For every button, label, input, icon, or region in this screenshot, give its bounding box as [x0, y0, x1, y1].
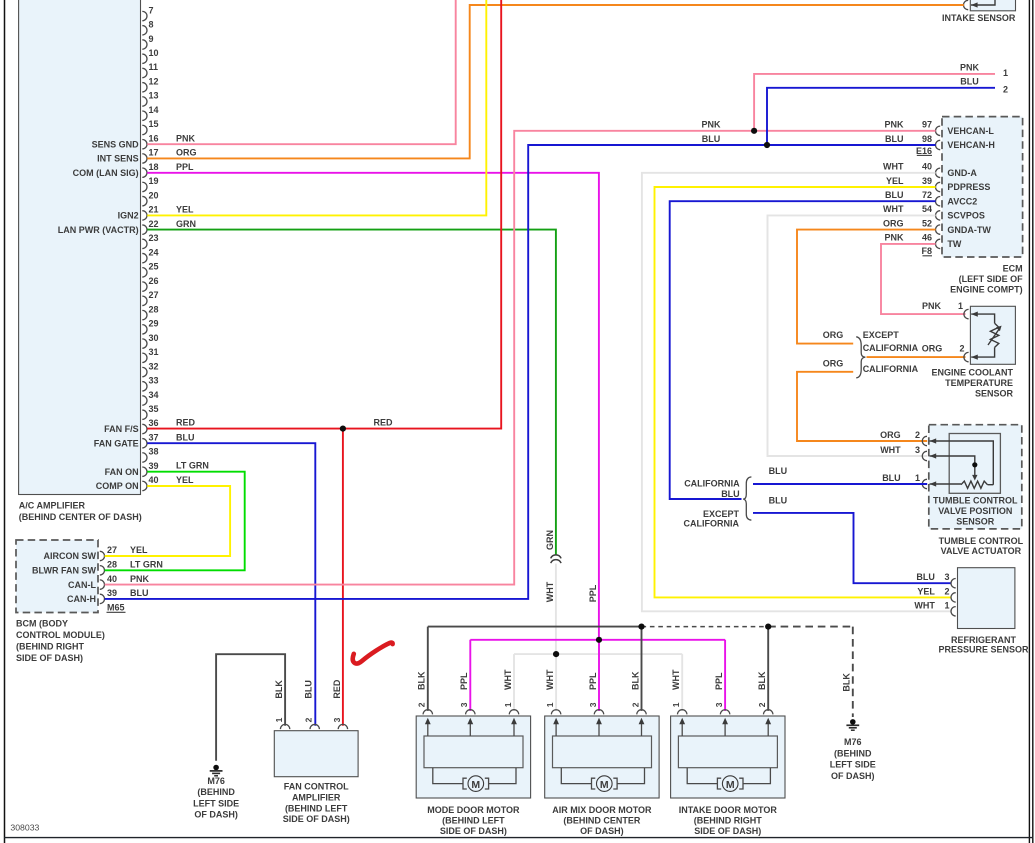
- svg-text:15: 15: [149, 119, 159, 129]
- svg-text:PNK: PNK: [701, 120, 721, 130]
- svg-text:39: 39: [149, 461, 159, 471]
- svg-text:SCVPOS: SCVPOS: [947, 211, 985, 221]
- svg-text:(LEFT SIDE OF: (LEFT SIDE OF: [959, 274, 1024, 284]
- svg-text:27: 27: [107, 545, 117, 555]
- refrigerant pressure sensor: [951, 568, 1015, 629]
- tumble sensor pin labels: [880, 430, 920, 483]
- fan control amplifier caption: [283, 782, 350, 824]
- svg-text:ORG: ORG: [922, 344, 943, 354]
- svg-text:WHT: WHT: [671, 669, 681, 690]
- svg-text:BLU: BLU: [916, 572, 935, 582]
- svg-text:3: 3: [588, 702, 598, 707]
- svg-text:VEHCAN-H: VEHCAN-H: [947, 140, 995, 150]
- svg-text:31: 31: [149, 347, 159, 357]
- fan control amplifier: [274, 724, 358, 776]
- svg-text:BLU: BLU: [885, 134, 904, 144]
- svg-text:PNK: PNK: [884, 233, 904, 243]
- svg-text:COMP ON: COMP ON: [96, 481, 139, 491]
- wire BLK bus mode/airmix/intake door motors: [428, 627, 853, 717]
- svg-text:10: 10: [149, 48, 159, 58]
- svg-text:CONTROL MODULE): CONTROL MODULE): [16, 630, 105, 640]
- svg-text:22: 22: [149, 219, 159, 229]
- ground M76 left: [210, 765, 223, 776]
- svg-text:40: 40: [107, 574, 117, 584]
- wire RED drop to fan control amplifier pin 3: [340, 426, 346, 726]
- svg-text:PPL: PPL: [459, 672, 469, 690]
- svg-text:BLU: BLU: [721, 489, 740, 499]
- A/C amplifier pin labels: [58, 139, 139, 491]
- svg-text:(BEHIND RIGHT: (BEHIND RIGHT: [16, 642, 84, 652]
- svg-text:39: 39: [922, 176, 932, 186]
- svg-text:PPL: PPL: [588, 584, 598, 602]
- svg-text:CAN-L: CAN-L: [68, 580, 96, 590]
- svg-text:SENSOR: SENSOR: [975, 388, 1014, 398]
- svg-text:SIDE OF DASH): SIDE OF DASH): [283, 814, 350, 824]
- svg-text:FAN ON: FAN ON: [105, 467, 139, 477]
- svg-text:9: 9: [149, 34, 154, 44]
- ECM caption: [950, 264, 1023, 295]
- svg-text:WHT: WHT: [883, 204, 904, 214]
- engine coolant temperature sensor (thermistor): [964, 306, 1016, 364]
- wire LT GRN pin39 FAN ON to BCM BLWR FAN SW: [105, 461, 245, 571]
- svg-text:YEL: YEL: [917, 586, 935, 596]
- svg-text:TUMBLE CONTROL: TUMBLE CONTROL: [939, 536, 1024, 546]
- svg-text:PNK: PNK: [130, 574, 150, 584]
- svg-text:E16: E16: [916, 146, 932, 156]
- svg-text:YEL: YEL: [176, 205, 194, 215]
- svg-text:BLK: BLK: [842, 673, 852, 692]
- svg-text:(BEHIND RIGHT: (BEHIND RIGHT: [694, 816, 762, 826]
- wire PPL mode door motor pin 3: [459, 640, 470, 711]
- svg-text:SENS GND: SENS GND: [92, 139, 140, 149]
- svg-text:36: 36: [149, 418, 159, 428]
- wire WHT ECM GND-A to refrigerant pressure sensor pin 1: [642, 173, 951, 612]
- wire BLU ECM AVCC2 to california brace: [670, 201, 936, 499]
- svg-text:RED: RED: [332, 679, 342, 699]
- svg-text:(BEHIND: (BEHIND: [834, 748, 872, 758]
- svg-text:1: 1: [915, 473, 920, 483]
- svg-text:CALIFORNIA: CALIFORNIA: [684, 478, 740, 488]
- svg-text:AIR MIX DOOR MOTOR: AIR MIX DOOR MOTOR: [552, 805, 652, 815]
- ground M76 left caption: [193, 776, 239, 820]
- svg-text:VALVE POSITION: VALVE POSITION: [938, 506, 1012, 516]
- svg-text:1: 1: [503, 702, 513, 707]
- svg-text:2: 2: [1003, 84, 1008, 94]
- svg-text:35: 35: [149, 404, 159, 414]
- wire PPL air mix door motor pin 3: [588, 640, 599, 711]
- svg-text:21: 21: [149, 205, 159, 215]
- connector BCM: [16, 540, 98, 613]
- svg-text:TEMPERATURE: TEMPERATURE: [945, 378, 1013, 388]
- svg-text:WHT: WHT: [545, 581, 555, 602]
- svg-text:SENSOR: SENSOR: [956, 517, 995, 527]
- svg-text:PNK: PNK: [176, 133, 196, 143]
- svg-text:2: 2: [944, 586, 949, 596]
- wire YEL pin21 IGN2 to top: [147, 0, 486, 215]
- wire WHT air mix door motor pin 1: [545, 654, 556, 711]
- svg-text:52: 52: [922, 218, 932, 228]
- connector id E16: [916, 146, 932, 156]
- svg-text:3: 3: [915, 445, 920, 455]
- wire BLU branch to connector pin 2: [764, 77, 1008, 148]
- svg-text:M76: M76: [844, 737, 862, 747]
- wire BLU except california to refrigerant pressure sensor pin 3: [753, 496, 951, 584]
- svg-text:M: M: [726, 779, 735, 791]
- svg-text:INT SENS: INT SENS: [97, 154, 139, 164]
- svg-text:FAN GATE: FAN GATE: [94, 438, 139, 448]
- svg-text:7: 7: [149, 5, 154, 15]
- svg-text:30: 30: [149, 333, 159, 343]
- red checkmark annotation: [353, 643, 393, 664]
- svg-text:CAN-H: CAN-H: [67, 594, 96, 604]
- svg-text:1: 1: [671, 702, 681, 707]
- svg-text:PPL: PPL: [176, 162, 194, 172]
- wire ORG to engine coolant temperature sensor pin 2: [867, 344, 966, 358]
- brace ORG california options: [856, 330, 918, 378]
- svg-text:WHT: WHT: [880, 445, 901, 455]
- svg-text:(BEHIND LEFT: (BEHIND LEFT: [442, 816, 505, 826]
- svg-text:GND-A: GND-A: [947, 168, 977, 178]
- svg-text:BLWR FAN SW: BLWR FAN SW: [32, 566, 96, 576]
- svg-text:LT GRN: LT GRN: [130, 560, 163, 570]
- wire ORG ECM GNDA-TW except california branch: [797, 230, 936, 344]
- svg-text:1: 1: [545, 702, 555, 707]
- svg-text:RED: RED: [176, 418, 196, 428]
- svg-text:97: 97: [922, 120, 932, 130]
- diagram number 308033: [10, 823, 39, 833]
- svg-text:CALIFORNIA: CALIFORNIA: [684, 519, 740, 529]
- svg-text:2: 2: [959, 344, 964, 354]
- svg-text:VALVE ACTUATOR: VALVE ACTUATOR: [941, 546, 1022, 556]
- wire ORG california branch to tumble sensor pin 2: [797, 359, 927, 441]
- svg-text:LAN PWR (VACTR): LAN PWR (VACTR): [58, 225, 139, 235]
- junction dots door motor buses: [553, 624, 771, 658]
- mode door motor caption: [427, 805, 520, 836]
- svg-text:ORG: ORG: [883, 218, 904, 228]
- svg-text:AIRCON SW: AIRCON SW: [44, 551, 97, 561]
- tumble control valve position sensor (potentiometer): [922, 425, 1022, 529]
- svg-text:2: 2: [417, 702, 427, 707]
- svg-text:BLU: BLU: [885, 190, 904, 200]
- air mix door motor caption: [552, 805, 652, 836]
- svg-text:COM (LAN SIG): COM (LAN SIG): [73, 168, 139, 178]
- svg-text:40: 40: [149, 475, 159, 485]
- svg-text:BLK: BLK: [757, 671, 767, 690]
- svg-text:F8: F8: [921, 246, 932, 256]
- svg-text:24: 24: [149, 247, 159, 257]
- svg-text:BLK: BLK: [417, 671, 427, 690]
- svg-text:3: 3: [459, 702, 469, 707]
- connector id M65: [107, 603, 126, 613]
- wire BLK fan control amplifier pin 1 to ground M76: [216, 654, 285, 761]
- svg-text:GRN: GRN: [545, 530, 555, 550]
- svg-text:BLK: BLK: [274, 680, 284, 699]
- svg-text:2: 2: [757, 702, 767, 707]
- svg-text:PPL: PPL: [714, 672, 724, 690]
- svg-text:PNK: PNK: [922, 301, 942, 311]
- wire PNK ECM TW to engine coolant temperature sensor pin 1: [881, 244, 966, 314]
- svg-text:EXCEPT: EXCEPT: [863, 330, 900, 340]
- svg-text:VEHCAN-L: VEHCAN-L: [947, 126, 994, 136]
- svg-text:BLK: BLK: [630, 671, 640, 690]
- svg-text:YEL: YEL: [130, 545, 148, 555]
- svg-text:RED: RED: [374, 418, 394, 428]
- svg-text:(BEHIND CENTER OF DASH): (BEHIND CENTER OF DASH): [19, 512, 142, 522]
- svg-text:ORG: ORG: [823, 359, 844, 369]
- svg-text:OF DASH): OF DASH): [194, 810, 238, 820]
- svg-text:ORG: ORG: [176, 148, 197, 158]
- tumble position sensor caption: [933, 496, 1018, 527]
- svg-text:28: 28: [107, 560, 117, 570]
- svg-text:32: 32: [149, 361, 159, 371]
- wire WHT ECM SCVPOS to tumble control valve position sensor pin 3: [768, 215, 936, 456]
- svg-text:FAN F/S: FAN F/S: [104, 424, 139, 434]
- svg-text:PNK: PNK: [884, 120, 904, 130]
- svg-text:29: 29: [149, 319, 159, 329]
- intake door motor: [671, 710, 785, 798]
- svg-text:40: 40: [922, 162, 932, 172]
- wire WHT splice to white bus: [555, 564, 557, 655]
- svg-text:19: 19: [149, 176, 159, 186]
- svg-text:54: 54: [922, 204, 932, 214]
- wire PPL pin18 COM(LAN SIG) to PPL bus: [147, 162, 599, 640]
- svg-text:BLU: BLU: [882, 473, 901, 483]
- A/C amplifier caption: [19, 501, 142, 522]
- wire PNK pin16 SENS GND to top: [147, 0, 456, 144]
- svg-text:ORG: ORG: [880, 430, 901, 440]
- svg-text:3: 3: [332, 717, 342, 722]
- wire PNK BCM CAN-L to ECM VEHCAN-L: [105, 120, 936, 585]
- svg-text:WHT: WHT: [503, 669, 513, 690]
- svg-text:13: 13: [149, 91, 159, 101]
- wire YEL pin40 COMP ON to BCM AIRCON SW: [105, 475, 231, 556]
- svg-text:WHT: WHT: [883, 162, 904, 172]
- svg-text:11: 11: [149, 62, 159, 72]
- svg-text:FAN CONTROL: FAN CONTROL: [284, 782, 349, 792]
- svg-text:PPL: PPL: [588, 672, 598, 690]
- mode door motor: [416, 710, 530, 798]
- svg-text:1: 1: [1003, 68, 1008, 78]
- intake sensor: [963, 0, 1015, 11]
- svg-text:BLU: BLU: [769, 466, 788, 476]
- fan control amplifier pin labels: [274, 679, 342, 722]
- svg-text:ENGINE COOLANT: ENGINE COOLANT: [931, 367, 1013, 377]
- wire BLU pin37 FAN GATE to fan control amplifier pin 2: [147, 432, 315, 725]
- svg-text:28: 28: [149, 304, 159, 314]
- brace BLU california options: [684, 477, 752, 529]
- svg-text:AVCC2: AVCC2: [947, 196, 977, 206]
- wire PPL bus door motors: [470, 639, 725, 641]
- svg-text:M: M: [471, 779, 480, 791]
- svg-text:WHT: WHT: [914, 601, 935, 611]
- wire WHT mode door motor pin 1: [503, 654, 514, 711]
- svg-text:M: M: [600, 779, 609, 791]
- wire YEL ECM PDPRESS to refrigerant pressure sensor pin 2: [655, 187, 952, 597]
- svg-text:3: 3: [944, 572, 949, 582]
- svg-text:PDPRESS: PDPRESS: [947, 182, 990, 192]
- svg-text:TW: TW: [947, 239, 961, 249]
- connector ECM: [942, 117, 1023, 257]
- label PPL riser: [588, 584, 598, 602]
- svg-text:WHT: WHT: [545, 669, 555, 690]
- svg-text:ORG: ORG: [823, 330, 844, 340]
- svg-text:23: 23: [149, 233, 159, 243]
- svg-text:SIDE OF DASH): SIDE OF DASH): [16, 653, 83, 663]
- engine coolant temperature sensor caption: [931, 367, 1013, 398]
- wire GRN pin22 LAN PWR to splice: [147, 219, 556, 555]
- svg-text:BLU: BLU: [960, 77, 979, 87]
- svg-text:2: 2: [915, 430, 920, 440]
- svg-text:A/C AMPLIFIER: A/C AMPLIFIER: [19, 501, 86, 511]
- svg-text:37: 37: [149, 432, 159, 442]
- svg-text:CALIFORNIA: CALIFORNIA: [863, 343, 919, 353]
- svg-text:25: 25: [149, 262, 159, 272]
- svg-text:26: 26: [149, 276, 159, 286]
- ground M76 right caption: [830, 737, 876, 781]
- svg-text:GNDA-TW: GNDA-TW: [947, 225, 991, 235]
- svg-text:ECM: ECM: [1003, 264, 1023, 274]
- wire BLU california to tumble sensor pin 1: [753, 466, 927, 484]
- splice GRN to WHT colour change: [545, 530, 561, 602]
- svg-text:SIDE OF DASH): SIDE OF DASH): [694, 826, 761, 836]
- svg-text:20: 20: [149, 190, 159, 200]
- svg-text:YEL: YEL: [176, 475, 194, 485]
- refrigerant pressure sensor pin labels: [914, 572, 949, 610]
- svg-text:3: 3: [714, 702, 724, 707]
- svg-text:2: 2: [630, 702, 640, 707]
- svg-text:(BEHIND LEFT: (BEHIND LEFT: [285, 803, 348, 813]
- ECM pins: [883, 120, 995, 250]
- svg-text:BCM (BODY: BCM (BODY: [16, 619, 68, 629]
- label BLK ground drop M76 right: [842, 673, 852, 692]
- connector A/C amplifier: [19, 0, 141, 495]
- svg-text:72: 72: [922, 190, 932, 200]
- wire BLK mode door motor pin 2: [417, 627, 428, 711]
- svg-text:27: 27: [149, 290, 159, 300]
- svg-text:LT GRN: LT GRN: [176, 461, 209, 471]
- svg-text:12: 12: [149, 76, 159, 86]
- svg-text:(BEHIND CENTER: (BEHIND CENTER: [563, 816, 641, 826]
- intake door motor caption: [679, 805, 778, 836]
- air mix door motor: [545, 710, 659, 798]
- wire BLU BCM CAN-H to ECM VEHCAN-H: [105, 134, 936, 599]
- A/C amplifier pins 7-40: [142, 5, 158, 490]
- svg-text:AMPLIFIER: AMPLIFIER: [292, 793, 341, 803]
- svg-text:38: 38: [149, 447, 159, 457]
- svg-text:2: 2: [304, 717, 314, 722]
- wire PNK branch to connector pin 1: [751, 63, 1008, 134]
- svg-text:SIDE OF DASH): SIDE OF DASH): [440, 826, 507, 836]
- svg-text:OF DASH): OF DASH): [831, 771, 875, 781]
- svg-text:16: 16: [149, 133, 159, 143]
- svg-text:M76: M76: [207, 776, 225, 786]
- tumble control valve actuator caption: [939, 536, 1024, 556]
- svg-text:1: 1: [274, 717, 284, 722]
- svg-text:MODE DOOR MOTOR: MODE DOOR MOTOR: [427, 805, 520, 815]
- svg-text:LEFT SIDE: LEFT SIDE: [830, 760, 876, 770]
- intake sensor caption: [942, 13, 1016, 23]
- svg-text:34: 34: [149, 390, 159, 400]
- svg-text:BLU: BLU: [176, 432, 195, 442]
- svg-text:PRESSURE SENSOR: PRESSURE SENSOR: [938, 645, 1029, 655]
- svg-text:YEL: YEL: [886, 176, 904, 186]
- svg-text:GRN: GRN: [176, 219, 196, 229]
- svg-text:ENGINE COMPT): ENGINE COMPT): [950, 285, 1023, 295]
- wire WHT intake door motor pin 1: [671, 654, 682, 711]
- svg-text:98: 98: [922, 134, 932, 144]
- svg-text:308033: 308033: [10, 823, 39, 833]
- svg-text:8: 8: [149, 20, 154, 30]
- svg-text:17: 17: [149, 148, 159, 158]
- svg-text:BLU: BLU: [304, 680, 314, 699]
- svg-text:BLU: BLU: [130, 588, 149, 598]
- BCM pins: [32, 545, 163, 604]
- wire ORG pin17 INT SENS to intake sensor: [147, 5, 964, 158]
- svg-text:PNK: PNK: [960, 63, 980, 73]
- svg-text:14: 14: [149, 105, 159, 115]
- svg-text:IGN2: IGN2: [118, 211, 139, 221]
- svg-text:(BEHIND: (BEHIND: [197, 787, 235, 797]
- wire BLK intake door motor pin 2: [757, 627, 768, 711]
- svg-text:M65: M65: [107, 603, 125, 613]
- svg-text:OF DASH): OF DASH): [580, 826, 624, 836]
- wire RED pin36 FAN F/S to top with tap: [147, 0, 501, 429]
- svg-text:1: 1: [944, 601, 949, 611]
- svg-text:INTAKE DOOR MOTOR: INTAKE DOOR MOTOR: [679, 805, 778, 815]
- refrigerant pressure sensor caption: [938, 635, 1029, 654]
- svg-text:CALIFORNIA: CALIFORNIA: [863, 364, 919, 374]
- connector id F8: [921, 246, 932, 256]
- BCM caption: [16, 619, 105, 664]
- svg-text:LEFT SIDE: LEFT SIDE: [193, 798, 239, 808]
- svg-text:46: 46: [922, 233, 932, 243]
- ground M76 right: [846, 719, 859, 730]
- svg-text:INTAKE SENSOR: INTAKE SENSOR: [942, 13, 1016, 23]
- svg-text:39: 39: [107, 588, 117, 598]
- svg-text:TUMBLE CONTROL: TUMBLE CONTROL: [933, 496, 1018, 506]
- svg-text:BLU: BLU: [702, 134, 721, 144]
- svg-text:33: 33: [149, 376, 159, 386]
- svg-text:18: 18: [149, 162, 159, 172]
- svg-text:1: 1: [958, 301, 963, 311]
- wire BLK air mix door motor pin 2: [630, 627, 641, 711]
- wire WHT bus door motors: [514, 653, 682, 655]
- wire PPL intake door motor pin 3: [714, 640, 725, 711]
- svg-text:BLU: BLU: [769, 496, 788, 506]
